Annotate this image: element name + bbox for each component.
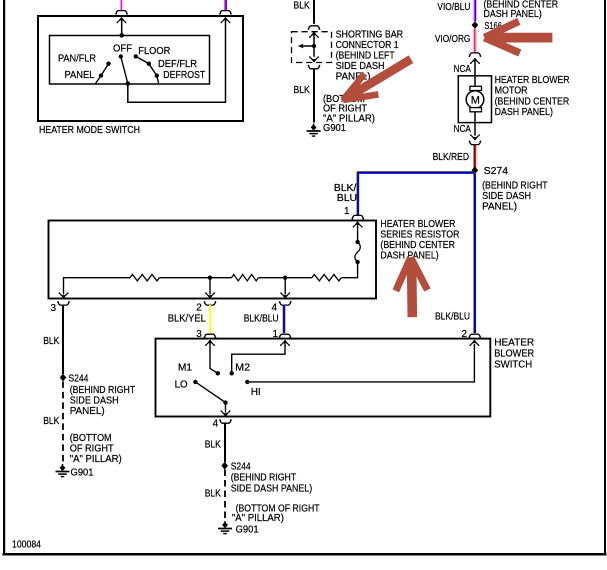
resistor R2 — [232, 275, 259, 281]
connector male switch pin 3 — [205, 340, 215, 346]
svg-text:1: 1 — [344, 206, 350, 217]
wire BLK resistor pin 3 to S244 — [62, 305, 64, 374]
svg-text:DASH PANEL): DASH PANEL) — [495, 106, 553, 118]
connector female resistor pin 4 — [279, 301, 292, 305]
shorting bar left arrow — [298, 44, 314, 48]
svg-text:BLK: BLK — [43, 415, 59, 427]
wire wiper to pin 4 — [225, 403, 227, 413]
svg-text:VIO/ORG: VIO/ORG — [435, 33, 471, 45]
svg-text:NCA: NCA — [454, 63, 471, 75]
connector male switch pin 1 — [280, 340, 290, 346]
switch contact PAN/FLR — [106, 62, 110, 66]
node shorting bar junction — [312, 44, 316, 48]
connector female switch pin 4 — [219, 419, 232, 423]
node tap pin 4 — [283, 276, 287, 280]
label BOTTOM OF RIGHT A PILLAR — [323, 93, 375, 125]
svg-text:SIDE DASH PANEL): SIDE DASH PANEL) — [231, 483, 313, 495]
svg-text:4: 4 — [213, 419, 219, 430]
frame bottom border — [3, 553, 607, 556]
svg-text:HEATER MODE SWITCH: HEATER MODE SWITCH — [39, 124, 140, 136]
wire BLK/BLU resistor pin 4 to switch pin 1 — [283, 305, 284, 333]
svg-text:G901: G901 — [71, 466, 94, 478]
contact LO — [193, 380, 197, 384]
svg-text:"A" PILLAR): "A" PILLAR) — [70, 453, 122, 465]
svg-text:BLK/BLU: BLK/BLU — [244, 313, 279, 325]
node wiper end — [223, 400, 227, 404]
wiper LO to pin 4 — [195, 382, 225, 403]
connector male resistor pin 2 — [205, 292, 215, 298]
connector female switch pin 2 — [468, 334, 481, 338]
wire BLK/BLU S274 to resistor pin 1 — [357, 172, 475, 216]
resistor R1 — [130, 275, 159, 281]
heater blower switch box — [156, 339, 491, 417]
svg-text:BLK: BLK — [205, 439, 221, 451]
svg-text:PANEL: PANEL — [65, 69, 95, 81]
thermal limiter — [355, 242, 360, 262]
wire tap pin 2 — [209, 278, 211, 295]
switch contact DEF/FLR — [147, 62, 151, 66]
heater mode switch outer box — [38, 16, 243, 121]
wire OFF wiper to pin B — [128, 18, 226, 102]
wiper OFF to common — [121, 57, 128, 84]
svg-text:VIO/BLU: VIO/BLU — [437, 1, 470, 13]
switch contact OFF — [119, 54, 123, 58]
connector female shorting bar bottom — [308, 65, 321, 69]
label BEHIND CENTER DASH PANEL top right — [484, 0, 559, 20]
svg-text:DEFROST: DEFROST — [163, 69, 205, 81]
wire VIO/ORG S166 to motor connector — [474, 29, 475, 53]
connector male shorting bar bottom — [309, 56, 319, 62]
svg-text:M2: M2 — [235, 361, 250, 373]
label HEATER BLOWER SERIES RESISTOR — [380, 218, 459, 262]
connector female resistor pin 2 — [204, 301, 217, 305]
splice S274 — [472, 166, 479, 174]
node tap pin 2 — [208, 276, 212, 280]
wire BLK/BLU S274 to switch pin 2 — [474, 174, 475, 333]
wire VIO/BLU into mode switch pin B — [225, 0, 226, 10]
wire pin 1 to thermal limiter — [357, 222, 359, 242]
motor brush top — [470, 86, 482, 90]
label BEHIND RIGHT SIDE DASH PANEL left — [70, 384, 136, 417]
connector female pin B — [219, 11, 232, 15]
svg-text:BLK/YEL: BLK/YEL — [168, 313, 206, 325]
switch contact DEFROST — [155, 73, 159, 77]
label HEATER BLOWER SWITCH — [494, 336, 534, 370]
wire BLK/YEL resistor pin 2 to switch pin 3 — [209, 305, 211, 333]
svg-text:DASH PANEL): DASH PANEL) — [484, 8, 542, 20]
wire pin 1 to M2 — [232, 341, 285, 374]
wire BLK shorting bar to G901 — [313, 69, 315, 123]
motor M circle — [466, 91, 484, 109]
wire FLOOR DEF/FLR DEFROST chain — [136, 56, 159, 83]
connector male switch pin 2 — [469, 340, 479, 346]
ground G901 left branch — [307, 124, 321, 137]
wire pin A to OFF contact — [121, 18, 123, 35]
svg-text:HI: HI — [251, 386, 261, 398]
svg-text:S244: S244 — [68, 373, 88, 385]
wire BLK/RED to S274 — [474, 145, 475, 169]
connector male resistor pin 3 — [59, 292, 69, 298]
connector male pin A — [117, 17, 127, 23]
heater blower series resistor box — [49, 221, 377, 299]
contact M1 — [216, 371, 220, 375]
svg-text:S274: S274 — [484, 165, 509, 177]
node junction on inner box top — [119, 33, 124, 38]
label BOTTOM OF RIGHT A PILLAR left — [70, 432, 122, 465]
ground G901 center bottom — [218, 521, 232, 534]
motor brush bottom — [470, 108, 482, 112]
label SHORTING BAR CONNECTOR 1 — [336, 28, 404, 82]
svg-text:100084: 100084 — [12, 539, 41, 551]
svg-text:3: 3 — [51, 303, 57, 314]
svg-text:BLK: BLK — [205, 488, 221, 500]
label BEHIND RIGHT SIDE DASH PANEL center — [231, 471, 313, 494]
wire NCA into motor — [474, 59, 476, 89]
resistor chain wire — [64, 278, 312, 295]
svg-text:"A" PILLAR): "A" PILLAR) — [323, 112, 375, 124]
svg-text:PAN/FLR: PAN/FLR — [58, 53, 96, 65]
svg-text:PANEL): PANEL) — [482, 201, 517, 213]
connector female resistor pin 3 — [57, 301, 70, 305]
label BLK/BLU two line — [334, 182, 357, 204]
connector male motor top — [470, 58, 480, 64]
wire pin 3 to M1 — [210, 341, 218, 374]
wire BLK dashed left to G901 — [62, 381, 64, 463]
contact M2 — [230, 371, 234, 375]
connector female switch pin 3 — [204, 334, 217, 338]
splice S244 left — [60, 374, 67, 382]
heater mode switch inner box — [50, 36, 210, 85]
label BOTTOM OF RIGHT A PILLAR center — [232, 502, 320, 524]
svg-text:BLU: BLU — [337, 192, 357, 204]
connector female shorting bar top — [308, 26, 321, 30]
svg-text:BLK: BLK — [294, 84, 310, 96]
connector male shorting bar top — [309, 32, 319, 38]
svg-text:LO: LO — [175, 379, 188, 391]
wire VIO into mode switch pin A — [120, 0, 122, 10]
wire PAN/FLR PANEL chain — [96, 64, 109, 84]
svg-text:BLK/RED: BLK/RED — [433, 151, 470, 163]
connector female pin A — [115, 11, 128, 15]
label BEHIND RIGHT SIDE DASH PANEL at S274 — [482, 179, 548, 212]
wire BLK dashed center to G901 — [224, 470, 226, 521]
frame right border — [604, 0, 606, 556]
splice S166 — [472, 21, 479, 29]
wire tap pin 4 — [284, 278, 286, 295]
svg-text:BLK: BLK — [294, 0, 310, 11]
shorting bar connector 1 dashed box — [292, 32, 332, 63]
connector female motor top — [469, 53, 482, 57]
label HEATER BLOWER MOTOR — [495, 74, 570, 118]
connector female motor bottom — [469, 141, 482, 145]
svg-text:BLK/BLU: BLK/BLU — [435, 311, 470, 323]
connector male resistor pin 4 — [280, 292, 290, 298]
wire BLK to shorting bar — [313, 0, 315, 24]
connector female resistor pin 1 — [351, 215, 364, 219]
annotation red arrow 3 — [396, 258, 428, 318]
svg-text:M: M — [471, 95, 480, 107]
connector male motor bottom — [470, 134, 480, 140]
connector male resistor pin 1 — [353, 222, 363, 228]
svg-text:PANEL): PANEL) — [70, 405, 105, 417]
wire VIO/BLU to S166 — [474, 0, 475, 21]
annotation red arrow 2 — [485, 21, 553, 53]
connector male pin B — [221, 17, 231, 23]
heater blower motor box — [458, 76, 491, 123]
svg-text:NCA: NCA — [454, 123, 471, 135]
svg-text:OFF: OFF — [113, 42, 132, 54]
connector male switch pin 4 — [221, 410, 231, 416]
ground G901 left bottom — [56, 464, 70, 477]
wire thermal to resistor chain — [342, 262, 358, 278]
svg-text:SWITCH: SWITCH — [494, 359, 532, 371]
switch contact PANEL — [99, 73, 103, 77]
svg-text:FLOOR: FLOOR — [138, 45, 170, 57]
svg-text:M1: M1 — [178, 361, 192, 373]
node wiper common — [126, 81, 131, 86]
wire HI to pin 2 — [247, 344, 474, 382]
connector female switch pin 1 — [279, 334, 292, 338]
frame left border — [3, 0, 5, 556]
resistor R3 — [312, 275, 341, 281]
node thermal top — [355, 240, 359, 244]
svg-text:BLK: BLK — [43, 335, 59, 347]
wire inside shorting bar — [313, 33, 315, 57]
annotation red arrow 1 — [343, 59, 411, 100]
node thermal bottom — [355, 260, 359, 264]
svg-text:G901: G901 — [236, 523, 259, 535]
wire BLK switch pin 4 to S244 — [224, 423, 226, 462]
splice S244 center — [221, 462, 228, 470]
contact HI — [245, 380, 249, 384]
switch contact FLOOR — [134, 54, 138, 58]
wire motor to bottom connector — [474, 112, 476, 136]
